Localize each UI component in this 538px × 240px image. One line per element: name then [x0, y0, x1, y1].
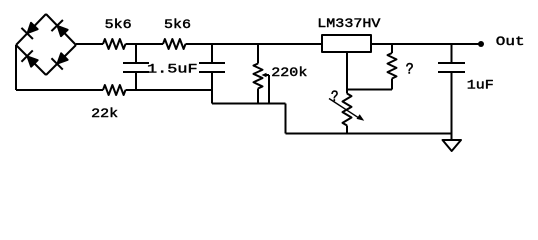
wire bottom rail right of 22k [126, 89, 213, 91]
diode D2 (bottom-left arm, cathode to left corner) [21, 50, 40, 69]
svg-text:22k: 22k [91, 107, 118, 122]
potentiometer R4 wiper wire down [268, 75, 270, 104]
svg-text:?: ? [331, 89, 339, 107]
wire ADJ pin down from regulator [346, 52, 348, 90]
bridge rectifier diamond top-left edge [16, 14, 46, 45]
capacitor C2 plates [199, 62, 225, 64]
rheostat R6 ? top stem [346, 90, 348, 94]
svg-text:LM337HV: LM337HV [317, 17, 381, 32]
wire top rail between R1 and R2 [126, 43, 164, 45]
bridge rectifier diamond bottom-right edge [46, 45, 76, 75]
diode D3 (top-right arm, cathode to top corner) [51, 20, 70, 39]
svg-text:220k: 220k [271, 66, 307, 81]
capacitor C1 plates [123, 62, 149, 64]
svg-text:1.5uF: 1.5uF [147, 63, 198, 77]
capacitor C3 1uF top stem [451, 44, 453, 63]
op-amp U1 LM337HV regulator box [322, 35, 371, 52]
resistor R2 5k6 zigzag [163, 39, 186, 49]
capacitor C3 bottom stem [451, 72, 453, 140]
bridge rectifier diamond bottom-left edge [16, 45, 46, 75]
capacitor C1 bottom stem [135, 72, 137, 90]
wire top rail from bridge to R1 [76, 43, 103, 45]
svg-text:?: ? [406, 62, 414, 79]
wire middle rail [212, 103, 286, 105]
svg-text:1uF: 1uF [467, 78, 494, 93]
capacitor C1 top stem [135, 44, 137, 63]
rheostat R6 ? zigzag [343, 94, 352, 126]
wire left vertical from bridge left corner down [15, 45, 17, 90]
resistor R3 22k zigzag [103, 85, 126, 95]
rheostat R6 ? bottom stem [346, 126, 348, 134]
wire bottom rail left segment [16, 89, 103, 91]
svg-text:Out: Out [496, 35, 525, 49]
wire top rail from regulator to output [371, 43, 481, 45]
node Out junction dot [478, 41, 484, 47]
resistor R5 ? bottom stem [391, 79, 393, 90]
resistor R5 ? zigzag [388, 53, 397, 79]
capacitor C2 top stem [211, 44, 213, 63]
diode D4 (bottom-right arm, cathode to bottom corner) [51, 51, 70, 70]
potentiometer R4 220k bottom stem [257, 89, 259, 104]
wire bottom ground rail [286, 133, 452, 135]
bridge rectifier diamond top-right edge [46, 14, 76, 45]
potentiometer R4 220k top stem [257, 44, 259, 64]
svg-text:5k6: 5k6 [164, 18, 191, 33]
diode D1 (top-left arm, cathode to left corner) [21, 20, 40, 39]
potentiometer R4 wiper arrow [262, 73, 267, 77]
capacitor C3 plates [438, 62, 465, 64]
wire ADJ horizontal to R5 [347, 89, 392, 91]
rheostat R6 adjust arrow [329, 99, 359, 118]
wire top rail from R2 to regulator box [186, 43, 323, 45]
potentiometer R4 220k zigzag [254, 64, 263, 89]
resistor R1 5k6 zigzag [103, 39, 126, 49]
wire jog from middle rail down to bottom rail [285, 104, 287, 134]
ground symbol [443, 140, 462, 151]
resistor R5 ? top stem [391, 44, 393, 53]
capacitor C2 bottom stem [211, 72, 213, 104]
svg-text:5k6: 5k6 [105, 18, 132, 33]
